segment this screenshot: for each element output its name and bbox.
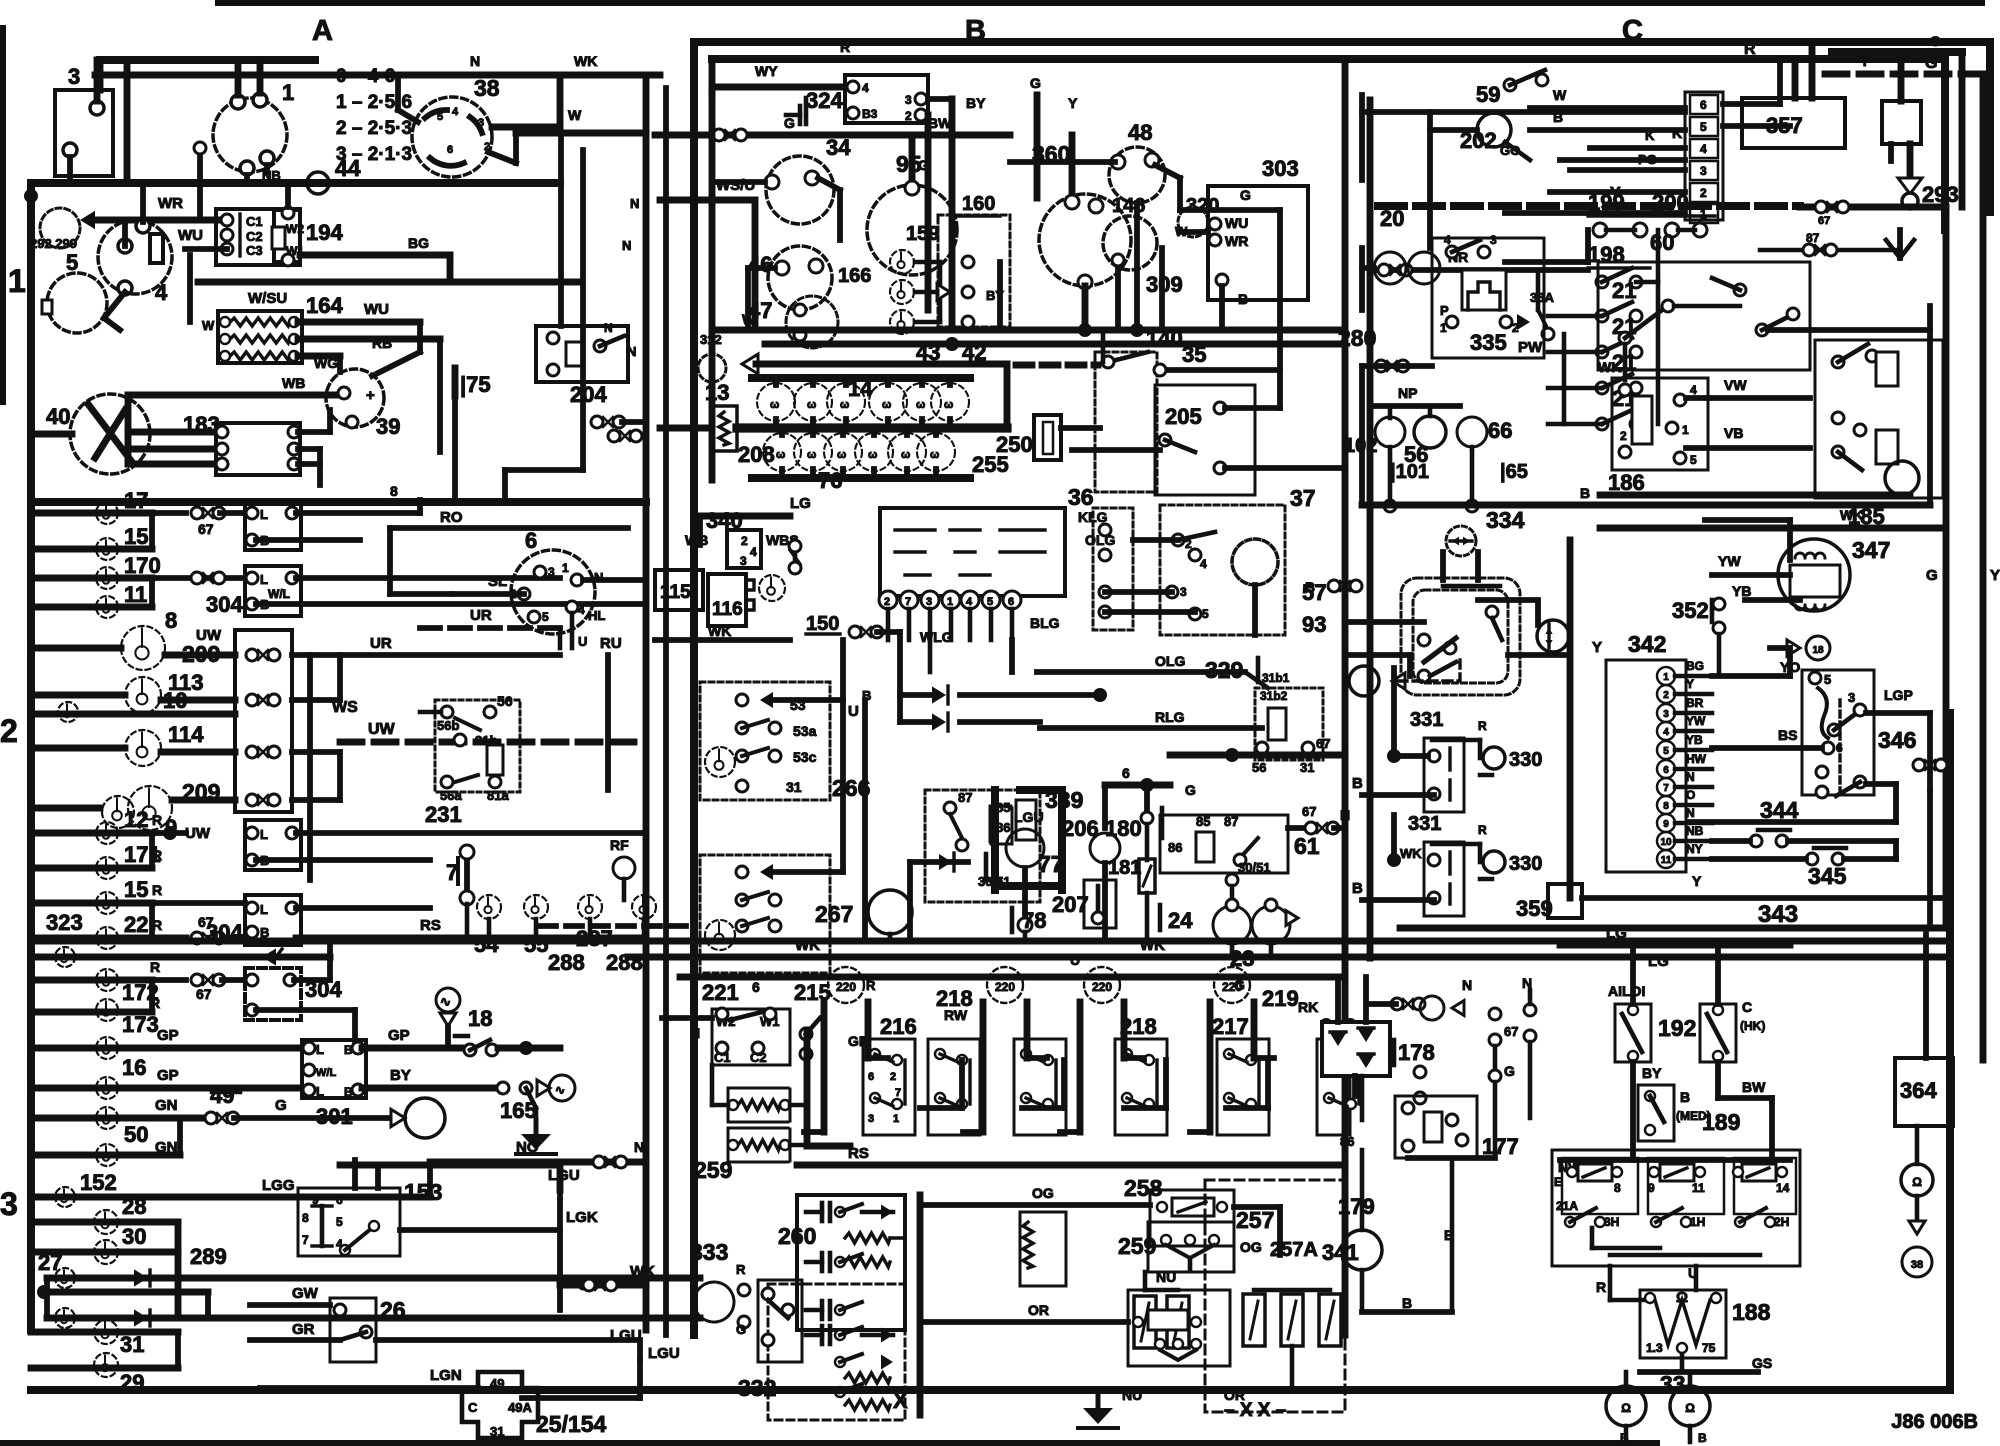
wire xyxy=(928,609,933,640)
component box xyxy=(1548,884,1582,918)
resistor xyxy=(230,318,290,326)
terminal xyxy=(1645,1293,1655,1303)
terminal xyxy=(520,1082,532,1094)
terminal xyxy=(1596,276,1608,288)
svg-text:U: U xyxy=(848,703,859,720)
arrow/diode xyxy=(1545,640,1552,646)
component box xyxy=(728,1088,790,1122)
wire xyxy=(292,697,340,703)
lamp xyxy=(96,567,118,589)
component box xyxy=(1640,1290,1726,1358)
svg-text:217: 217 xyxy=(1212,1014,1249,1039)
terminal xyxy=(1217,1202,1227,1212)
terminal xyxy=(246,926,258,938)
terminal xyxy=(1043,1055,1053,1065)
svg-text:ω: ω xyxy=(837,449,846,461)
lamp xyxy=(524,895,548,919)
svg-text:WK: WK xyxy=(708,623,731,639)
wire xyxy=(1020,786,1062,794)
wire xyxy=(963,1129,983,1135)
inline connector xyxy=(246,746,280,758)
svg-text:4: 4 xyxy=(452,106,459,118)
terminal xyxy=(1102,356,1114,368)
wire xyxy=(1900,240,1914,258)
wire xyxy=(1986,42,1994,212)
lamp xyxy=(96,1077,118,1099)
wire xyxy=(425,110,447,118)
svg-text:C2: C2 xyxy=(750,1050,767,1065)
resistor xyxy=(719,412,729,445)
wire xyxy=(31,954,330,961)
terminal xyxy=(1428,788,1440,800)
terminal xyxy=(1144,1055,1154,1065)
terminal xyxy=(982,591,1000,609)
wire xyxy=(1567,540,1574,898)
wire xyxy=(1610,1298,1648,1303)
lamp xyxy=(759,575,785,601)
svg-text:208: 208 xyxy=(738,442,775,467)
wire xyxy=(1536,270,1541,310)
wire xyxy=(889,862,891,890)
component box xyxy=(1734,1158,1796,1214)
wire xyxy=(865,1002,872,1058)
component circle xyxy=(903,383,941,421)
arrow/diode xyxy=(1463,537,1470,546)
wire xyxy=(148,1310,151,1326)
terminal xyxy=(835,1257,845,1267)
terminal xyxy=(63,143,77,157)
resistor xyxy=(230,352,290,360)
component circle xyxy=(1657,778,1675,796)
junction xyxy=(1387,749,1401,763)
svg-text:194: 194 xyxy=(306,220,343,245)
wire xyxy=(1788,838,1896,844)
wire xyxy=(222,935,245,941)
wire xyxy=(149,578,155,607)
wire xyxy=(128,461,216,468)
svg-text:4: 4 xyxy=(750,545,757,559)
svg-text:3: 3 xyxy=(478,117,484,129)
wire xyxy=(752,374,970,382)
wire xyxy=(1655,1300,1710,1345)
svg-text:L: L xyxy=(260,572,268,587)
wire xyxy=(1707,1014,1727,1052)
svg-text:1: 1 xyxy=(282,80,294,105)
wire xyxy=(152,977,186,983)
component box xyxy=(1095,352,1157,492)
wire xyxy=(804,1129,824,1135)
wire xyxy=(312,1204,332,1207)
wire xyxy=(1530,1189,1560,1191)
svg-text:GP: GP xyxy=(157,1067,179,1084)
wire xyxy=(1478,844,1483,862)
terminal xyxy=(1189,608,1201,620)
wire xyxy=(1340,489,1588,491)
svg-text:364: 364 xyxy=(1900,1078,1937,1103)
wire xyxy=(447,255,454,282)
svg-text:Y: Y xyxy=(1692,873,1702,889)
terminal xyxy=(736,894,748,906)
wire xyxy=(752,200,759,330)
junction xyxy=(519,1041,533,1055)
wire xyxy=(292,749,340,755)
component circle xyxy=(1178,207,1208,237)
wire xyxy=(1665,1168,1687,1177)
junction xyxy=(1140,778,1154,792)
terminal xyxy=(1677,1343,1687,1353)
wire xyxy=(505,467,583,473)
svg-text:PG: PG xyxy=(1638,152,1657,167)
lamp xyxy=(705,920,735,950)
svg-text:7: 7 xyxy=(1663,783,1669,794)
terminal xyxy=(728,1100,738,1110)
terminal xyxy=(1161,1235,1171,1245)
wire xyxy=(498,1045,560,1052)
terminal xyxy=(136,219,150,233)
wire xyxy=(828,1203,833,1221)
component circle xyxy=(1885,461,1919,495)
component box xyxy=(1424,842,1464,916)
svg-text:J86 006B: J86 006B xyxy=(1891,1411,1978,1433)
svg-text:181: 181 xyxy=(1108,857,1141,879)
wire xyxy=(1450,1158,1455,1312)
terminal xyxy=(1418,634,1430,646)
svg-text:UR: UR xyxy=(370,635,392,652)
component circle xyxy=(1806,636,1830,660)
wire xyxy=(1723,123,1790,129)
svg-text:6: 6 xyxy=(447,144,453,156)
component circle xyxy=(1778,539,1850,611)
lamp xyxy=(94,1353,118,1377)
svg-text:OLG: OLG xyxy=(1155,653,1185,669)
lamp xyxy=(890,250,914,274)
wire xyxy=(129,392,342,399)
terminal xyxy=(547,332,559,344)
svg-text:87: 87 xyxy=(1224,814,1238,829)
component box xyxy=(536,326,628,382)
terminal xyxy=(1866,350,1878,362)
wire xyxy=(1649,1062,1651,1085)
ground xyxy=(1078,1394,1118,1428)
svg-text:3: 3 xyxy=(68,64,80,89)
terminal xyxy=(1734,284,1746,296)
arrow/diode xyxy=(760,692,773,708)
component circle xyxy=(1446,526,1476,556)
wire xyxy=(1630,945,1636,1004)
svg-text:31: 31 xyxy=(786,779,802,795)
svg-text:R: R xyxy=(1596,1279,1606,1295)
lamp xyxy=(58,702,78,722)
wire xyxy=(877,629,900,635)
wire xyxy=(1717,634,1722,676)
component circle xyxy=(766,156,834,224)
wire xyxy=(1680,1354,1685,1372)
svg-text:YW: YW xyxy=(1686,714,1706,728)
component circle xyxy=(1670,1386,1710,1426)
wire xyxy=(1079,941,1081,957)
wire xyxy=(868,1055,888,1061)
resistor xyxy=(845,1233,890,1243)
wire xyxy=(1560,157,1685,163)
svg-text:86: 86 xyxy=(1340,1134,1354,1149)
wire xyxy=(940,1098,958,1106)
svg-text:N: N xyxy=(1522,975,1532,991)
svg-text:324: 324 xyxy=(806,88,843,113)
wire xyxy=(1602,302,1632,316)
wire xyxy=(128,429,216,436)
wire xyxy=(1054,1060,1057,1104)
wire xyxy=(1362,897,1434,903)
wire xyxy=(1640,1369,1758,1375)
wire xyxy=(1448,852,1451,874)
terminal xyxy=(1630,382,1642,394)
wire xyxy=(31,1115,205,1122)
svg-text:166: 166 xyxy=(838,265,871,287)
wire xyxy=(1959,52,1966,207)
svg-text:7: 7 xyxy=(895,1087,901,1099)
svg-text:WK: WK xyxy=(1140,937,1165,954)
wire xyxy=(152,935,186,942)
wire xyxy=(1178,1202,1206,1212)
lamp xyxy=(96,927,118,949)
wire xyxy=(1288,825,1310,831)
wire xyxy=(660,197,755,204)
svg-text:G: G xyxy=(1240,187,1251,203)
wire xyxy=(1344,560,1346,700)
wire xyxy=(1715,1062,1721,1098)
wire xyxy=(907,609,912,640)
terminal xyxy=(1674,394,1686,406)
terminal xyxy=(1414,1066,1426,1078)
wire xyxy=(1253,1290,1255,1294)
wire xyxy=(840,1384,862,1392)
wire xyxy=(920,1105,962,1111)
svg-text:186: 186 xyxy=(1608,470,1645,495)
wire xyxy=(1291,1290,1293,1294)
terminal xyxy=(216,443,228,455)
svg-text:U: U xyxy=(578,634,587,649)
terminal xyxy=(1486,606,1498,618)
svg-text:G: G xyxy=(1925,55,1937,72)
inline connector xyxy=(191,572,225,584)
wire xyxy=(742,918,768,926)
wire xyxy=(1675,857,1712,862)
inline connector xyxy=(1815,201,1849,213)
component circle xyxy=(1657,704,1675,722)
wire xyxy=(980,1002,987,1132)
wire xyxy=(1592,1246,1660,1251)
svg-text:E: E xyxy=(1554,1175,1562,1189)
wire xyxy=(1712,838,1750,844)
arrow/diode xyxy=(1358,1055,1374,1068)
wire xyxy=(1834,712,1858,730)
terminal xyxy=(764,1008,776,1020)
terminal xyxy=(789,562,801,574)
svg-text:67: 67 xyxy=(198,521,214,537)
terminal xyxy=(1666,422,1678,434)
wire xyxy=(1277,1207,1283,1255)
wire xyxy=(840,640,846,872)
svg-text:250: 250 xyxy=(996,432,1033,457)
terminal xyxy=(454,734,466,746)
terminal xyxy=(1065,195,1079,209)
svg-text:YB: YB xyxy=(1732,583,1751,599)
wire xyxy=(1508,652,1570,658)
wire xyxy=(149,980,155,1012)
terminal xyxy=(1828,724,1840,736)
terminal xyxy=(1324,1093,1334,1103)
wire xyxy=(1407,655,1413,676)
component circle xyxy=(987,967,1023,1003)
svg-text:5: 5 xyxy=(542,610,549,624)
terminal xyxy=(286,507,298,519)
junction xyxy=(1387,853,1401,867)
wire xyxy=(1547,334,1549,424)
component box xyxy=(1552,1150,1800,1266)
wire xyxy=(430,1284,560,1286)
wire xyxy=(967,1212,969,1356)
wire xyxy=(927,114,929,116)
svg-text:81a: 81a xyxy=(487,788,509,803)
wire xyxy=(317,449,323,485)
component circle xyxy=(47,273,107,333)
svg-text:2: 2 xyxy=(1185,537,1192,551)
wire xyxy=(1787,648,1793,676)
wire xyxy=(1226,1105,1268,1111)
lamp xyxy=(55,1187,75,1207)
wire xyxy=(1102,785,1108,828)
terminal xyxy=(1428,892,1440,904)
wire xyxy=(889,812,891,890)
svg-text:BR: BR xyxy=(1686,696,1704,710)
terminal xyxy=(1630,310,1642,322)
wire xyxy=(1898,52,1905,101)
svg-text:352: 352 xyxy=(1672,598,1709,623)
wire xyxy=(1688,1372,1693,1386)
wire xyxy=(31,805,100,812)
wire xyxy=(798,106,803,124)
component box xyxy=(1317,1039,1350,1135)
terminal xyxy=(528,611,540,623)
svg-text:6: 6 xyxy=(1122,765,1130,781)
wire xyxy=(376,1331,560,1333)
wire xyxy=(1340,1107,1395,1109)
wire xyxy=(31,1194,300,1201)
component circle xyxy=(931,383,969,421)
svg-text:WY: WY xyxy=(755,63,778,79)
wire xyxy=(1633,1074,1650,1076)
wire xyxy=(1334,825,1345,831)
svg-text:LG: LG xyxy=(1648,953,1669,970)
wire xyxy=(1600,229,1640,231)
wire xyxy=(946,713,949,731)
arrow xyxy=(1787,640,1800,656)
svg-text:292 299: 292 299 xyxy=(30,236,77,251)
terminal xyxy=(738,1316,750,1328)
arrow/diode xyxy=(932,686,946,703)
wire xyxy=(1493,1082,1498,1157)
wire xyxy=(1810,447,1815,449)
wire xyxy=(1450,539,1472,542)
wire xyxy=(340,739,646,746)
wire xyxy=(152,900,245,906)
terminal xyxy=(246,534,258,546)
svg-text:170: 170 xyxy=(124,553,161,578)
fuse xyxy=(1167,1296,1189,1348)
wire xyxy=(1838,344,1868,362)
terminal xyxy=(780,1100,790,1110)
wire xyxy=(470,117,482,133)
terminal xyxy=(1822,742,1834,754)
terminal xyxy=(1711,1293,1721,1303)
svg-text:G: G xyxy=(275,1097,287,1114)
svg-text:LG: LG xyxy=(1606,925,1627,942)
wire xyxy=(298,461,320,467)
wire xyxy=(1362,94,1510,96)
svg-text:W: W xyxy=(568,107,582,123)
wire xyxy=(31,711,235,718)
wire xyxy=(810,378,816,385)
wire xyxy=(680,1047,712,1049)
terminal xyxy=(594,340,606,352)
wire xyxy=(1254,1288,1330,1293)
wire xyxy=(1630,1062,1636,1160)
wire xyxy=(655,132,1010,139)
terminal xyxy=(1593,223,1607,237)
svg-text:ω: ω xyxy=(868,449,877,461)
terminal xyxy=(1787,308,1799,320)
svg-text:330: 330 xyxy=(1509,749,1542,771)
wire xyxy=(1478,740,1483,758)
arrow xyxy=(1392,673,1405,689)
wire xyxy=(260,1385,478,1391)
wire xyxy=(1240,838,1258,858)
wire xyxy=(730,1012,762,1020)
wire xyxy=(339,1165,341,1188)
wire xyxy=(95,72,660,79)
svg-text:3: 3 xyxy=(0,1186,18,1222)
wire xyxy=(256,601,646,607)
terminal xyxy=(1806,853,1818,865)
terminal xyxy=(231,95,245,109)
svg-text:Ω: Ω xyxy=(1685,1401,1695,1415)
svg-text:4: 4 xyxy=(578,603,585,617)
svg-text:K: K xyxy=(1672,125,1682,141)
wire xyxy=(1480,773,1492,778)
terminal xyxy=(346,416,358,428)
wire xyxy=(1548,386,1602,391)
svg-text:48: 48 xyxy=(1128,120,1152,145)
fuse xyxy=(1243,1294,1265,1346)
terminal xyxy=(220,334,230,344)
component box xyxy=(1815,340,1943,498)
arrow/diode xyxy=(939,854,952,870)
wire xyxy=(1180,229,1208,235)
wire xyxy=(1757,1312,1759,1372)
svg-text:11: 11 xyxy=(124,582,147,607)
wire xyxy=(31,1219,178,1226)
wire xyxy=(1257,1060,1260,1104)
wire xyxy=(986,878,1000,883)
svg-text:VW: VW xyxy=(1724,377,1747,393)
svg-text:OG: OG xyxy=(1240,1239,1262,1255)
junction xyxy=(163,826,177,840)
terminal xyxy=(769,722,781,734)
terminal xyxy=(1832,356,1844,368)
svg-text:WK: WK xyxy=(630,1263,655,1280)
wire xyxy=(1704,505,1706,520)
component circle xyxy=(1420,996,1444,1020)
